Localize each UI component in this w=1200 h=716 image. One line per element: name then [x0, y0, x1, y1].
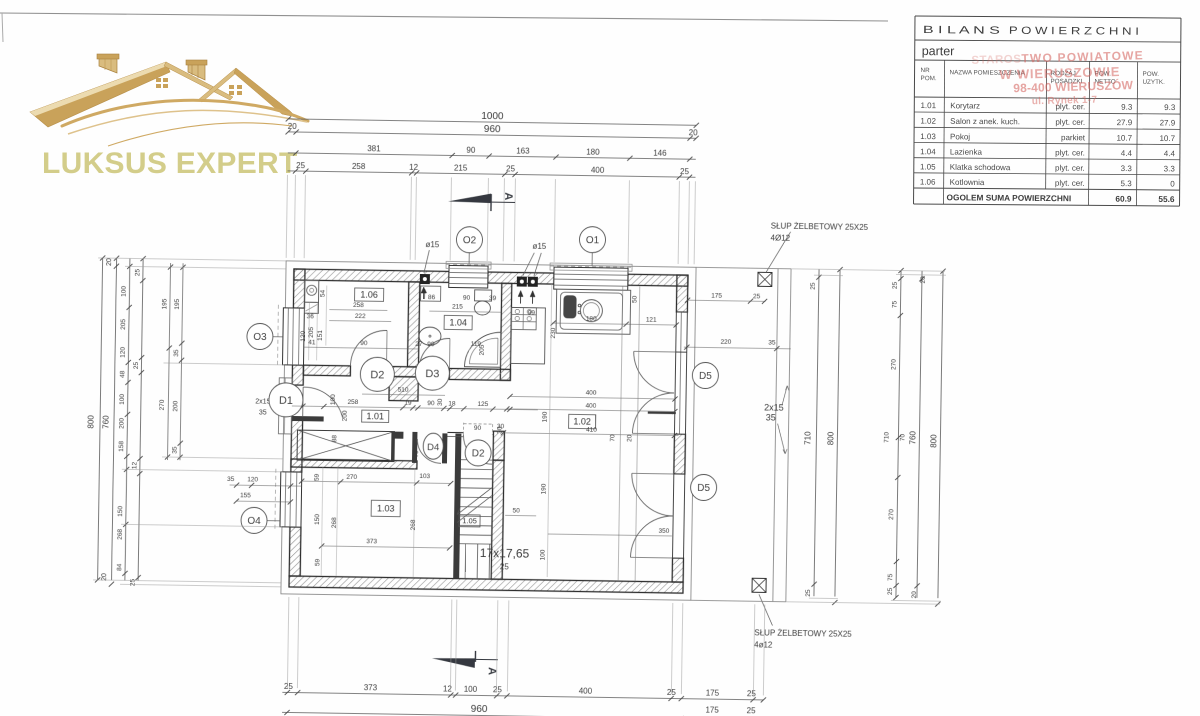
room label 1.01	[362, 410, 389, 422]
svg-text:100: 100	[539, 549, 546, 560]
svg-text:800: 800	[86, 415, 95, 429]
svg-text:90: 90	[360, 340, 368, 347]
svg-text:75: 75	[891, 300, 898, 308]
svg-text:1000: 1000	[481, 111, 504, 122]
svg-text:410: 410	[586, 427, 597, 434]
svg-text:1.05: 1.05	[462, 516, 477, 525]
svg-text:25: 25	[134, 268, 141, 276]
svg-text:1.03: 1.03	[920, 132, 936, 141]
svg-text:parkiet: parkiet	[1061, 133, 1086, 142]
svg-text:760: 760	[101, 415, 110, 429]
wall corridor / room 1.03	[291, 459, 417, 469]
svg-text:10.7: 10.7	[1116, 134, 1132, 143]
stairs 1.05	[461, 459, 493, 462]
svg-text:60.9: 60.9	[1115, 194, 1132, 204]
svg-text:163: 163	[516, 146, 530, 155]
svg-text:1.03: 1.03	[377, 504, 395, 514]
svg-text:O4: O4	[247, 516, 261, 527]
door/window symbol D5	[690, 474, 716, 500]
svg-text:plyt. cer.: plyt. cer.	[1055, 179, 1085, 188]
area table BILANS POWIERZCHNI	[915, 16, 1181, 18]
svg-text:Pokoj: Pokoj	[950, 132, 970, 141]
stair top wall piece	[447, 431, 463, 433]
svg-text:120: 120	[247, 476, 258, 483]
svg-text:151: 151	[317, 330, 324, 341]
kitchen side counter with hob	[511, 307, 546, 364]
svg-text:400: 400	[585, 403, 596, 410]
svg-text:plyt. cer.: plyt. cer.	[1055, 148, 1085, 157]
svg-text:100: 100	[119, 393, 126, 404]
svg-text:35: 35	[173, 349, 180, 357]
svg-text:100: 100	[464, 685, 478, 694]
svg-text:800: 800	[929, 434, 938, 448]
svg-text:25: 25	[805, 589, 812, 597]
svg-text:90: 90	[466, 146, 476, 155]
svg-text:215: 215	[454, 164, 468, 173]
svg-text:NR: NR	[921, 67, 931, 74]
room label 1.05	[459, 515, 480, 527]
svg-text:35: 35	[259, 409, 267, 416]
svg-text:17x17,65: 17x17,65	[480, 546, 530, 561]
svg-text:plyt. cer.: plyt. cer.	[1055, 164, 1085, 173]
toilet	[475, 290, 492, 301]
wall boiler room right	[407, 282, 419, 367]
svg-text:39: 39	[489, 295, 497, 302]
svg-text:20: 20	[911, 591, 918, 599]
svg-text:P O W I E R Z C H N I: P O W I E R Z C H N I	[1009, 25, 1139, 38]
svg-text:Salon z anek. kuch.: Salon z anek. kuch.	[950, 117, 1020, 127]
svg-text:180: 180	[586, 148, 600, 157]
logo roofs	[30, 62, 170, 127]
svg-text:30: 30	[497, 423, 505, 430]
svg-text:75: 75	[887, 573, 894, 581]
svg-text:D2: D2	[370, 369, 384, 381]
svg-text:55.6: 55.6	[1158, 194, 1175, 204]
svg-text:LUKSUS EXPERT: LUKSUS EXPERT	[42, 147, 298, 180]
svg-text:ø15: ø15	[425, 240, 439, 249]
svg-text:270: 270	[888, 509, 895, 520]
svg-text:175: 175	[705, 706, 719, 715]
svg-text:D4: D4	[427, 442, 439, 453]
svg-text:12: 12	[131, 461, 138, 469]
svg-text:800: 800	[826, 431, 835, 445]
porch dims	[688, 300, 766, 301]
svg-text:36: 36	[307, 313, 315, 320]
door D1 entrance left	[292, 384, 303, 386]
door D5 right top (double)	[674, 312, 687, 434]
room label 1.04	[444, 315, 472, 329]
svg-text:400: 400	[591, 166, 605, 175]
svg-text:400: 400	[586, 390, 597, 397]
svg-text:5.3: 5.3	[1121, 179, 1133, 188]
svg-text:222: 222	[355, 313, 366, 320]
svg-text:88: 88	[331, 435, 338, 443]
svg-text:4ø12: 4ø12	[754, 640, 773, 649]
svg-text:400: 400	[579, 687, 593, 696]
svg-text:258: 258	[353, 302, 364, 309]
svg-text:2x15: 2x15	[764, 402, 784, 412]
svg-text:270: 270	[890, 359, 897, 370]
door D4 room 1.03	[417, 439, 441, 463]
svg-text:70: 70	[414, 450, 420, 457]
svg-text:268: 268	[410, 519, 417, 530]
svg-text:960: 960	[484, 124, 501, 135]
stair right wall	[493, 431, 504, 460]
stair left wall	[453, 464, 461, 579]
svg-text:180: 180	[586, 316, 597, 323]
section arrow A bottom	[432, 658, 475, 668]
svg-text:Lazienka: Lazienka	[950, 147, 983, 156]
wall bathroom right	[500, 283, 512, 380]
svg-text:25: 25	[747, 689, 757, 698]
svg-text:25: 25	[284, 682, 294, 691]
svg-text:SŁUP ŻELBETOWY 25X25: SŁUP ŻELBETOWY 25X25	[771, 221, 869, 232]
svg-text:70: 70	[609, 434, 616, 442]
bathtub	[464, 332, 501, 368]
svg-text:195: 195	[161, 298, 168, 309]
svg-text:A: A	[486, 667, 498, 675]
svg-text:373: 373	[364, 683, 378, 692]
svg-text:plyt. cer.: plyt. cer.	[1055, 118, 1085, 127]
svg-text:POM.: POM.	[920, 75, 936, 82]
svg-text:41: 41	[308, 339, 316, 346]
svg-text:1.06: 1.06	[360, 290, 378, 300]
door D2 boiler room	[350, 330, 387, 367]
right dimension chains	[814, 269, 819, 596]
svg-text:119: 119	[471, 341, 482, 348]
svg-text:195: 195	[174, 298, 181, 309]
svg-text:25: 25	[680, 167, 690, 176]
svg-text:3.3: 3.3	[1164, 164, 1176, 173]
svg-text:1.01: 1.01	[920, 101, 936, 110]
svg-text:205: 205	[308, 326, 315, 337]
svg-text:155: 155	[240, 492, 251, 499]
svg-text:710: 710	[803, 431, 812, 445]
svg-text:90: 90	[427, 400, 435, 407]
svg-text:4Ø12: 4Ø12	[770, 233, 790, 242]
bottom dimension chains	[282, 692, 763, 700]
svg-text:373: 373	[366, 538, 377, 545]
svg-text:760: 760	[908, 430, 917, 444]
svg-text:100: 100	[330, 394, 337, 405]
svg-text:Klatka schodowa: Klatka schodowa	[950, 163, 1011, 172]
svg-text:100: 100	[121, 285, 128, 296]
outer wall top	[294, 269, 449, 282]
svg-text:200: 200	[342, 410, 349, 421]
svg-text:20: 20	[920, 276, 927, 284]
svg-text:O3: O3	[253, 332, 267, 343]
svg-text:UZYTK.: UZYTK.	[1142, 79, 1165, 86]
room label 1.03	[371, 500, 400, 516]
wardrobe with X in corridor	[297, 430, 394, 462]
outer wall right	[676, 275, 688, 312]
svg-text:A: A	[502, 192, 514, 200]
door/window symbol D1	[269, 383, 304, 418]
svg-text:1.04: 1.04	[920, 147, 936, 156]
svg-text:parter: parter	[922, 44, 955, 58]
svg-text:35: 35	[172, 446, 179, 454]
svg-text:1.05: 1.05	[920, 162, 936, 171]
outer wall left	[293, 269, 305, 308]
svg-text:90: 90	[427, 341, 435, 348]
window O4 position dims	[230, 485, 302, 486]
svg-text:146: 146	[653, 149, 667, 158]
svg-text:1.04: 1.04	[449, 318, 467, 328]
window O4 left	[280, 472, 302, 527]
svg-text:98-400 WIERUSZÓW: 98-400 WIERUSZÓW	[1013, 77, 1134, 95]
svg-text:54: 54	[320, 289, 327, 297]
vent ducts 2,3	[517, 277, 527, 287]
door D2 stairs	[463, 435, 492, 464]
svg-text:25: 25	[887, 587, 894, 595]
svg-text:25: 25	[747, 706, 757, 715]
svg-text:350: 350	[658, 528, 669, 535]
svg-text:35: 35	[768, 339, 776, 346]
door/window symbol O2	[456, 227, 482, 253]
symbol D4	[423, 433, 443, 459]
svg-text:D3: D3	[425, 368, 439, 380]
svg-text:59: 59	[314, 473, 321, 481]
sheet top scan line	[0, 13, 888, 21]
svg-text:50: 50	[632, 295, 639, 303]
room label 1.06	[355, 288, 384, 301]
svg-text:99: 99	[528, 310, 536, 317]
svg-text:ul. Rynek 1-7: ul. Rynek 1-7	[1032, 95, 1098, 108]
svg-text:710: 710	[883, 431, 890, 442]
svg-text:12: 12	[409, 163, 419, 172]
svg-text:270: 270	[346, 474, 357, 481]
svg-text:510: 510	[398, 387, 409, 394]
window O3 left	[282, 308, 304, 365]
section arrow A top	[448, 193, 491, 203]
svg-text:90: 90	[463, 295, 471, 302]
outer wall bottom	[289, 576, 683, 593]
svg-text:27: 27	[415, 341, 423, 348]
svg-text:205: 205	[120, 318, 127, 329]
door/window symbol O3	[247, 323, 273, 349]
washbasin	[419, 327, 441, 345]
svg-text:4.4: 4.4	[1164, 149, 1176, 158]
svg-text:D5: D5	[699, 371, 712, 382]
svg-text:59: 59	[314, 558, 321, 566]
svg-text:258: 258	[352, 162, 366, 171]
svg-text:20: 20	[689, 128, 699, 137]
svg-text:2x15: 2x15	[255, 398, 270, 405]
svg-text:268: 268	[117, 528, 124, 539]
door jamb walls near stairs	[412, 432, 417, 463]
svg-text:90: 90	[474, 425, 482, 432]
svg-text:215: 215	[452, 303, 463, 310]
svg-text:3.3: 3.3	[1121, 164, 1133, 173]
svg-text:270: 270	[159, 399, 166, 410]
terrace slab lines	[696, 267, 791, 268]
svg-text:1.02: 1.02	[920, 117, 936, 126]
svg-text:10.7: 10.7	[1159, 134, 1175, 143]
svg-text:OGOLEM SUMA POWIERZCHNI: OGOLEM SUMA POWIERZCHNI	[947, 192, 1072, 203]
svg-text:25: 25	[500, 562, 510, 571]
svg-text:25: 25	[506, 164, 516, 173]
svg-text:Korytarz: Korytarz	[950, 101, 980, 110]
door/window symbol O4	[241, 507, 267, 533]
svg-text:200: 200	[118, 417, 125, 428]
svg-text:200: 200	[172, 400, 179, 411]
niche 86	[421, 286, 441, 301]
svg-text:0: 0	[1170, 180, 1175, 189]
svg-text:O2: O2	[463, 235, 477, 246]
svg-text:20: 20	[288, 122, 298, 131]
svg-text:25: 25	[129, 578, 136, 586]
svg-text:D2: D2	[472, 448, 485, 459]
door/window symbol D2	[465, 440, 491, 466]
column slup zelbetowy top	[758, 272, 772, 286]
svg-text:B I L A N S: B I L A N S	[923, 24, 1000, 37]
svg-text:D5: D5	[697, 483, 710, 494]
svg-text:9.3: 9.3	[1164, 103, 1176, 112]
window O2 top (bathroom)	[449, 265, 488, 288]
svg-text:158: 158	[118, 440, 125, 451]
svg-text:1.02: 1.02	[573, 417, 591, 427]
column slup zelbetowy bottom	[752, 578, 766, 592]
window O1 top (kitchen)	[554, 267, 628, 290]
svg-text:190: 190	[542, 411, 549, 422]
svg-text:125: 125	[477, 401, 488, 408]
svg-text:120: 120	[120, 346, 127, 357]
vent duct 1	[420, 274, 430, 284]
svg-text:4.4: 4.4	[1121, 149, 1133, 158]
svg-text:103: 103	[419, 473, 430, 480]
svg-text:9.3: 9.3	[1121, 103, 1133, 112]
door D5 right bottom (double)	[673, 474, 685, 558]
svg-text:70: 70	[899, 434, 906, 442]
svg-text:150: 150	[117, 505, 124, 516]
door/window symbol O1	[579, 226, 605, 252]
kitchen counter under window	[556, 289, 631, 334]
svg-text:258: 258	[347, 399, 358, 406]
svg-text:25: 25	[133, 361, 140, 369]
svg-text:175: 175	[706, 689, 720, 698]
svg-text:ø15: ø15	[532, 242, 546, 251]
svg-text:POW.: POW.	[1143, 71, 1160, 78]
svg-text:35: 35	[766, 412, 776, 422]
door/window symbol D3	[415, 356, 450, 391]
svg-text:960: 960	[471, 704, 488, 715]
door/window symbol D5	[692, 362, 718, 388]
svg-text:48: 48	[119, 370, 126, 378]
svg-text:121: 121	[646, 317, 657, 324]
svg-text:190: 190	[540, 483, 547, 494]
svg-text:1.06: 1.06	[920, 178, 936, 187]
svg-text:381: 381	[367, 144, 381, 153]
left dimension chains	[98, 258, 103, 580]
svg-text:84: 84	[116, 563, 123, 571]
svg-text:SŁUP ŻELBETOWY 25X25: SŁUP ŻELBETOWY 25X25	[754, 628, 852, 639]
svg-text:25: 25	[753, 293, 761, 300]
svg-text:20: 20	[106, 258, 113, 266]
wall bathroom bottom	[449, 368, 510, 380]
svg-text:25: 25	[296, 161, 306, 170]
svg-text:50: 50	[513, 507, 521, 514]
svg-text:35: 35	[227, 476, 235, 483]
svg-text:12: 12	[443, 684, 453, 693]
svg-text:D1: D1	[279, 395, 293, 407]
room label 1.02	[569, 414, 596, 428]
svg-text:25: 25	[810, 282, 817, 290]
svg-text:220: 220	[720, 339, 731, 346]
svg-text:Kotlownia: Kotlownia	[950, 178, 985, 187]
svg-text:20: 20	[626, 434, 633, 442]
wall boiler room bottom	[303, 365, 350, 376]
svg-text:STAROS: STAROS	[971, 54, 1021, 67]
svg-text:25: 25	[892, 281, 899, 289]
svg-text:30: 30	[437, 398, 444, 406]
door D3 bathroom	[419, 338, 449, 368]
svg-text:27.9: 27.9	[1117, 118, 1133, 127]
svg-text:25: 25	[493, 685, 503, 694]
svg-text:175: 175	[711, 293, 722, 300]
washer and sink boiler room	[304, 280, 318, 302]
top dimension chains	[288, 119, 696, 125]
svg-text:150: 150	[314, 514, 321, 525]
foundation outline	[281, 261, 696, 600]
svg-text:86: 86	[428, 294, 436, 301]
door/window symbol D2	[360, 357, 395, 392]
svg-text:120: 120	[300, 330, 307, 341]
svg-text:27.9: 27.9	[1160, 118, 1176, 127]
svg-text:O1: O1	[586, 235, 600, 246]
svg-text:1.01: 1.01	[366, 411, 384, 421]
